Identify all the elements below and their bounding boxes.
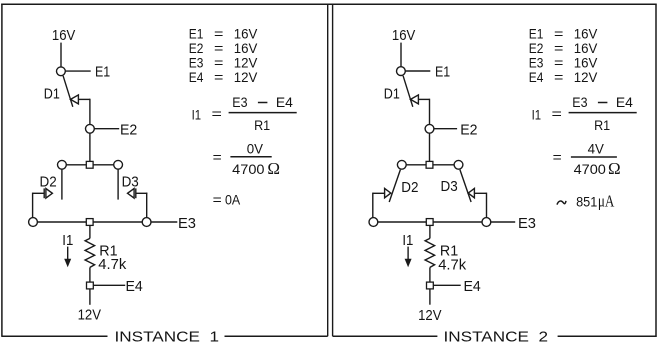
- wire corner down to node E2 (instance 2): [429, 99, 431, 125]
- wire from diode D1 to E2 corner (instance 1): [78, 98, 90, 100]
- svg-text:12V: 12V: [574, 69, 598, 85]
- equation fraction bar 2 (instance 2): [571, 156, 617, 158]
- diode D3 triangle (instance 2): [468, 188, 474, 197]
- svg-text:D2: D2: [401, 179, 418, 196]
- rail right terminal circle (instance 2): [482, 218, 491, 227]
- equation fraction bar 1 (instance 1): [229, 112, 297, 114]
- svg-text:=: =: [214, 69, 223, 85]
- svg-text:E4: E4: [276, 94, 293, 110]
- resistor R1 zigzag body (instance 2): [425, 238, 435, 267]
- node E1 terminal circle (instance 2): [397, 67, 406, 76]
- svg-text:=: =: [213, 149, 222, 165]
- svg-text:=: =: [213, 191, 222, 207]
- svg-text:0A: 0A: [225, 192, 241, 208]
- wire corner down to node E2 (instance 1): [89, 99, 91, 125]
- svg-text:4700: 4700: [574, 161, 607, 177]
- node E2 terminal circle (instance 1): [86, 124, 95, 133]
- center divider double line (left): [327, 4, 329, 336]
- diode D1 anode diagonal wire (instance 1): [63, 76, 73, 107]
- top row wire right (instance 1): [93, 164, 114, 166]
- wire from 16V label down to node E1 (instance 2): [400, 43, 402, 67]
- wire right corner down to rail (instance 1): [146, 193, 148, 218]
- rail wire left segment (instance 2): [378, 221, 427, 223]
- equation fraction bar 2 (instance 1): [230, 156, 271, 158]
- wire from node E1 to label (instance 2): [405, 70, 430, 72]
- diode D2 anode lead wire (instance 1): [33, 192, 44, 194]
- svg-text:=: =: [554, 25, 563, 41]
- svg-text:D1: D1: [44, 85, 60, 102]
- wire node E4 down to 12V (instance 1): [89, 289, 91, 305]
- svg-text:E3: E3: [232, 94, 247, 110]
- rail wire left segment (instance 1): [37, 221, 86, 223]
- current arrow I1 shaft (instance 2): [407, 247, 409, 261]
- wire node E2 down to top junction (instance 1): [89, 133, 91, 161]
- svg-text:=: =: [553, 149, 562, 165]
- svg-text:4700: 4700: [232, 161, 265, 177]
- svg-text:E2: E2: [189, 40, 204, 56]
- svg-text:16V: 16V: [574, 40, 598, 56]
- equation minus sign (instance 1): [258, 102, 268, 104]
- svg-text:4.7k: 4.7k: [98, 256, 126, 273]
- svg-text:=: =: [214, 40, 223, 56]
- svg-text:12V: 12V: [418, 307, 441, 324]
- svg-text:E4: E4: [529, 69, 544, 85]
- diode D2 anode lead wire (instance 2): [373, 192, 385, 194]
- top-right terminal circle (instance 2): [454, 160, 463, 169]
- diode D3 anode lead wire (instance 2): [474, 192, 486, 194]
- outer frame right border: [655, 4, 657, 337]
- wire node E4 down to 12V (instance 2): [429, 289, 431, 305]
- node E2 terminal circle (instance 2): [425, 124, 434, 133]
- wire left corner down to rail (instance 1): [32, 193, 34, 218]
- svg-text:E4: E4: [464, 278, 481, 295]
- svg-text:E2: E2: [460, 121, 477, 138]
- wire drop from top-right circle (instance 1): [117, 169, 119, 199]
- wire rail junction down to resistor (instance 1): [89, 225, 91, 238]
- svg-text:16V: 16V: [574, 25, 598, 41]
- outer frame top border: [1, 3, 656, 5]
- wire resistor down to node E4 (instance 1): [89, 267, 91, 282]
- svg-text:12V: 12V: [234, 55, 258, 71]
- rail left terminal circle (instance 2): [369, 218, 378, 227]
- diode D2 cathode bar (instance 1): [43, 188, 45, 198]
- wire from node E1 to label (instance 1): [65, 70, 90, 72]
- svg-text:I1: I1: [62, 232, 73, 249]
- svg-text:=: =: [214, 25, 223, 41]
- svg-text:16V: 16V: [392, 27, 415, 44]
- diode D1 triangle (instance 2): [411, 95, 419, 104]
- svg-text:=: =: [552, 105, 562, 121]
- svg-text:INSTANCE 1: INSTANCE 1: [115, 328, 220, 345]
- svg-text:=: =: [554, 69, 563, 85]
- node E1 terminal circle (instance 1): [57, 67, 66, 76]
- top row wire left (instance 1): [66, 164, 86, 166]
- diode D3 cathode diagonal wire (instance 2): [460, 170, 471, 202]
- node E4 junction square (instance 1): [87, 282, 94, 289]
- svg-text:16V: 16V: [234, 25, 258, 41]
- svg-text:E4: E4: [189, 69, 204, 85]
- top junction square (instance 1): [86, 161, 93, 168]
- diode D2 triangle (instance 1): [46, 189, 53, 199]
- wire node E2 down to top junction (instance 2): [429, 133, 431, 161]
- svg-text:0V: 0V: [247, 141, 264, 157]
- svg-text:I1: I1: [402, 232, 413, 249]
- rail junction square (instance 1): [86, 219, 93, 226]
- svg-text:E3: E3: [189, 55, 204, 71]
- current arrow I1 shaft (instance 1): [67, 247, 69, 261]
- svg-text:D3: D3: [441, 178, 458, 195]
- svg-text:=: =: [554, 55, 563, 71]
- bottom border segment left of INSTANCE 1 label: [2, 335, 108, 337]
- svg-text:=: =: [212, 105, 222, 121]
- svg-text:4.7k: 4.7k: [438, 256, 466, 273]
- wire from node E2 to label (instance 1): [94, 128, 119, 130]
- rail junction square (instance 2): [426, 219, 433, 226]
- top-left terminal circle (instance 2): [397, 160, 406, 169]
- svg-text:16V: 16V: [234, 40, 258, 56]
- svg-text:E1: E1: [95, 64, 110, 81]
- wire left corner down to rail (instance 2): [372, 193, 374, 218]
- svg-text:851: 851: [576, 193, 597, 209]
- top-right terminal circle (instance 1): [114, 160, 123, 169]
- rail wire right segment (instance 1): [93, 221, 142, 223]
- top row wire left (instance 2): [406, 164, 426, 166]
- equation fraction bar 1 (instance 2): [569, 112, 637, 114]
- top row wire right (instance 2): [433, 164, 454, 166]
- diode D3 triangle (instance 1): [128, 189, 135, 199]
- diode D3 anode lead wire (instance 1): [136, 192, 147, 194]
- wire from node E4 to label (instance 2): [433, 284, 460, 286]
- svg-text:E1: E1: [435, 64, 450, 81]
- svg-text:μA: μA: [598, 191, 615, 210]
- svg-text:16V: 16V: [574, 55, 598, 71]
- svg-text:E4: E4: [616, 94, 633, 110]
- rail wire to E3 label (instance 2): [491, 221, 515, 223]
- rail wire to E3 label (instance 1): [151, 221, 177, 223]
- svg-text:I1: I1: [192, 106, 202, 122]
- diode D2 cathode diagonal wire (instance 2): [389, 170, 400, 202]
- node E4 junction square (instance 2): [427, 282, 434, 289]
- current arrow I1 head (instance 1): [64, 259, 71, 268]
- wire rail junction down to resistor (instance 2): [429, 225, 431, 238]
- top junction square (instance 2): [426, 161, 433, 168]
- rail wire right segment (instance 2): [433, 221, 482, 223]
- diode D3 cathode bar (instance 1): [135, 188, 137, 198]
- svg-text:16V: 16V: [52, 27, 75, 44]
- svg-text:R1: R1: [254, 117, 270, 133]
- equation result approx-equal tilde (instance 2): [557, 201, 566, 205]
- wire from node E2 to label (instance 2): [434, 128, 457, 130]
- wire resistor down to node E4 (instance 2): [429, 267, 431, 282]
- wire right corner down to rail (instance 2): [486, 193, 488, 218]
- svg-text:Ω: Ω: [608, 159, 621, 178]
- svg-text:INSTANCE 2: INSTANCE 2: [444, 328, 549, 345]
- wire drop from top-left circle (instance 1): [61, 169, 63, 199]
- rail right terminal circle (instance 1): [142, 218, 151, 227]
- svg-text:12V: 12V: [234, 69, 258, 85]
- svg-text:12V: 12V: [78, 307, 101, 324]
- svg-text:=: =: [554, 40, 563, 56]
- diode D2 triangle (instance 2): [385, 188, 391, 197]
- bottom border segment left of INSTANCE 2 label: [333, 335, 438, 337]
- svg-text:D3: D3: [122, 173, 139, 190]
- svg-text:E3: E3: [572, 94, 587, 110]
- current arrow I1 head (instance 2): [405, 259, 412, 268]
- diode D1 triangle (instance 1): [71, 95, 79, 104]
- wire from diode D1 to E2 corner (instance 2): [418, 98, 429, 100]
- top-left terminal circle (instance 1): [58, 160, 67, 169]
- equation minus sign (instance 2): [598, 102, 608, 104]
- svg-text:E1: E1: [189, 25, 204, 41]
- svg-text:=: =: [214, 55, 223, 71]
- resistor R1 zigzag body (instance 1): [85, 238, 95, 267]
- svg-text:E4: E4: [126, 278, 143, 295]
- svg-text:E1: E1: [529, 25, 544, 41]
- outer frame left border: [1, 4, 3, 337]
- svg-text:R1: R1: [594, 117, 610, 133]
- svg-text:D1: D1: [384, 85, 400, 102]
- svg-text:E3: E3: [518, 215, 536, 232]
- svg-text:4V: 4V: [588, 141, 605, 157]
- svg-text:E3: E3: [529, 55, 544, 71]
- svg-text:I1: I1: [532, 106, 542, 122]
- diode D1 anode diagonal wire (instance 2): [403, 76, 413, 107]
- svg-text:D2: D2: [40, 173, 57, 190]
- wire from 16V label down to node E1 (instance 1): [60, 43, 62, 67]
- svg-text:E2: E2: [529, 40, 544, 56]
- svg-text:Ω: Ω: [267, 159, 280, 178]
- wire from node E4 to label (instance 1): [93, 284, 125, 286]
- svg-text:E2: E2: [120, 121, 137, 138]
- bottom border segment right of INSTANCE 2 label: [558, 335, 657, 337]
- center divider double line (right): [332, 4, 334, 336]
- rail left terminal circle (instance 1): [29, 218, 38, 227]
- svg-text:E3: E3: [178, 215, 196, 232]
- bottom border segment right of INSTANCE 1 label: [225, 335, 328, 337]
